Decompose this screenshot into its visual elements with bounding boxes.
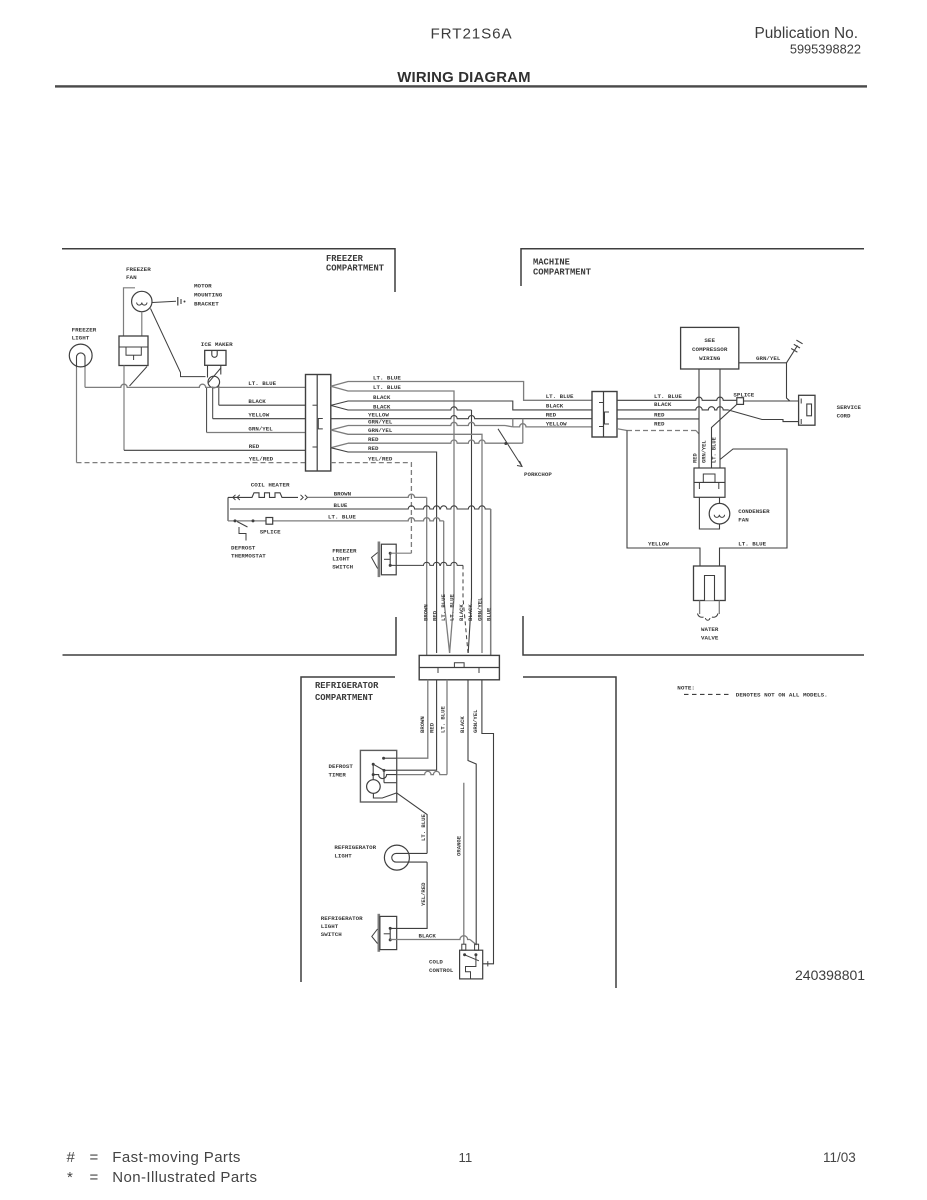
label LT. BLUE condenser loop [738, 540, 766, 547]
footer non-illustrated parts [67, 1169, 257, 1186]
condenser fan label [738, 508, 770, 524]
svg-text:CONTROL: CONTROL [429, 967, 454, 974]
connector J2 machine [592, 392, 617, 438]
wire RED dashed J2 [617, 429, 699, 434]
refrigerator vertical wire label BLACK [459, 716, 466, 733]
wire splice to service cord [744, 400, 799, 402]
svg-text:FAN: FAN [126, 274, 137, 281]
note text [677, 685, 827, 699]
svg-text:RED: RED [249, 443, 260, 450]
wire YEL/RED into switch top contact [390, 552, 411, 554]
wire BLUE row [230, 506, 491, 509]
vertical wire label LT. BLUE [440, 594, 447, 621]
vertical wire label BLACK [458, 604, 465, 621]
svg-text:FAN: FAN [738, 517, 749, 524]
wire RED J2 to compressor [617, 418, 699, 420]
compressor terminal box [694, 468, 725, 497]
wire ice maker YELLOW drop [212, 387, 214, 419]
connector J1 freezer harness [306, 375, 331, 472]
svg-text:VALVE: VALVE [701, 635, 719, 642]
cold control label [429, 959, 454, 974]
splice square freezer [266, 518, 273, 525]
svg-text:RED: RED [654, 411, 665, 418]
wire BLACK drop to porkchop [331, 403, 472, 653]
footer fast-moving parts [67, 1149, 241, 1166]
document number 240398801 [795, 967, 865, 983]
wire switch to BLACK dashed drop [390, 562, 468, 653]
vertical wire label LT. BLUE [449, 594, 456, 621]
svg-text:SPLICE: SPLICE [733, 391, 754, 398]
svg-text:MOUNTING: MOUNTING [194, 292, 223, 299]
svg-text:REFRIGERATOR: REFRIGERATOR [321, 915, 363, 922]
svg-text:YEL/RED: YEL/RED [368, 455, 393, 462]
wire LT.BLUE drop from heater row [444, 521, 450, 653]
svg-text:WATER: WATER [701, 626, 719, 633]
svg-text:WIRING: WIRING [699, 355, 721, 362]
label YELLOW water valve [648, 540, 669, 547]
label YEL/RED vertical [420, 882, 427, 906]
label BLUE heater [334, 502, 348, 509]
defrost timer label [329, 763, 354, 779]
svg-text:YEL/RED: YEL/RED [420, 882, 427, 906]
ice maker leads and pigtail [208, 365, 221, 388]
svg-text:LT. BLUE: LT. BLUE [654, 393, 682, 400]
svg-text:RED: RED [693, 453, 699, 463]
vertical wire label BROWN [423, 604, 430, 621]
wire RED pair riser to machine [331, 419, 523, 448]
svg-text:COMPARTMENT: COMPARTMENT [533, 268, 592, 278]
defrost timer box [360, 750, 396, 802]
svg-text:FRT21S6A: FRT21S6A [431, 26, 513, 43]
wire YELLOW branch to water valve [627, 431, 700, 567]
wire freezer light to LT.BLUE [84, 368, 86, 388]
svg-text:BLACK: BLACK [546, 403, 564, 410]
svg-text:*: * [67, 1169, 73, 1186]
wire YELLOW to machine [331, 411, 592, 418]
footer date [823, 1150, 856, 1165]
label BLACK refrigerator [419, 933, 437, 940]
svg-text:COMPRESSOR: COMPRESSOR [692, 346, 728, 353]
wire LT.BLUE drop to porkchop [331, 384, 454, 653]
svg-text:RED: RED [429, 722, 436, 733]
svg-text:FREEZER: FREEZER [332, 548, 357, 555]
svg-text:LT. BLUE: LT. BLUE [738, 540, 766, 547]
svg-text:LT. BLUE: LT. BLUE [440, 706, 447, 733]
machine compartment bottom border [523, 616, 864, 655]
wire LT.BLUE heater row [228, 518, 444, 521]
svg-text:GRN/YEL: GRN/YEL [477, 597, 484, 621]
page header publication number [754, 25, 861, 57]
svg-text:240398801: 240398801 [795, 967, 865, 983]
label LT. BLUE heater [328, 514, 356, 521]
vertical wire label RED [432, 610, 439, 621]
svg-text:Non-Illustrated Parts: Non-Illustrated Parts [112, 1169, 257, 1186]
cold control [460, 944, 483, 979]
svg-text:GRN/YEL: GRN/YEL [368, 418, 393, 425]
defrost thermostat label [231, 545, 266, 560]
wire GRN/YEL upper [331, 418, 592, 430]
svg-text:FREEZER: FREEZER [326, 254, 364, 264]
vertical wire label BLACK [467, 604, 474, 621]
svg-text:LIGHT: LIGHT [334, 853, 352, 860]
svg-text:BLACK: BLACK [467, 604, 474, 621]
svg-text:LT. BLUE: LT. BLUE [420, 814, 427, 841]
wire RED to defrost timer [397, 680, 437, 770]
svg-text:LT. BLUE: LT. BLUE [328, 514, 356, 521]
svg-text:COIL HEATER: COIL HEATER [251, 482, 290, 489]
wire YEL/RED dashed to freezer light switch [331, 455, 412, 553]
wire BLACK switch to cold control [390, 936, 476, 945]
labels machine rows left [546, 393, 574, 428]
label YEL/RED left [249, 455, 274, 462]
svg-text:SERVICE: SERVICE [837, 404, 862, 411]
svg-text:WIRING DIAGRAM: WIRING DIAGRAM [397, 70, 531, 86]
svg-text:LIGHT: LIGHT [321, 923, 339, 930]
splice label freezer [260, 528, 281, 535]
water valve label [701, 626, 719, 642]
wire YELLOW row left [213, 418, 306, 420]
svg-text:LT. BLUE: LT. BLUE [546, 393, 574, 400]
freezer compartment bottom border [63, 617, 397, 655]
svg-text:RED: RED [654, 420, 665, 427]
defrost thermostat [234, 519, 255, 540]
svg-text:LT. BLUE: LT. BLUE [373, 384, 401, 391]
svg-text:LT. BLUE: LT. BLUE [449, 594, 456, 621]
svg-text:BLACK: BLACK [458, 604, 465, 621]
wire ice maker BLACK drop [218, 386, 220, 406]
refrigerator vertical wire label LT. BLUE [440, 706, 447, 733]
refrigerator light bulb [384, 845, 427, 870]
ground symbol chassis [791, 340, 802, 352]
svg-text:GRN/YEL: GRN/YEL [248, 425, 273, 432]
freezer compartment label [326, 254, 385, 274]
wire GRN/YEL to ground [739, 346, 798, 402]
refrigerator vertical wire label RED [429, 722, 436, 733]
wire timer to refrigerator light [397, 793, 427, 854]
defrost timer motor [367, 775, 397, 798]
svg-text:ICE MAKER: ICE MAKER [201, 341, 233, 348]
label LT. BLUE vertical [420, 814, 427, 841]
wire LT.BLUE row left [85, 384, 306, 387]
svg-text:CORD: CORD [837, 413, 851, 420]
svg-text:BROWN: BROWN [334, 490, 352, 497]
see compressor wiring box [681, 327, 739, 369]
refrigerator light switch label [321, 915, 363, 938]
vertical wire label BLUE [486, 607, 493, 621]
svg-text:#: # [67, 1149, 76, 1166]
svg-text:11/03: 11/03 [823, 1150, 856, 1165]
label GRN/YEL machine [756, 355, 781, 362]
svg-text:LIGHT: LIGHT [332, 556, 350, 563]
wire BROWN to defrost timer [397, 680, 428, 758]
defrost timer contacts [372, 757, 397, 783]
svg-text:RED: RED [546, 412, 557, 419]
svg-text:5995398822: 5995398822 [790, 42, 861, 57]
title underline rule [55, 85, 867, 87]
wire GRN/YEL drop to porkchop [331, 427, 482, 653]
splice label machine [733, 391, 754, 398]
porkchop pointer [498, 429, 552, 478]
freezer fan switch box [119, 336, 148, 366]
label BLACK left [248, 398, 266, 405]
svg-text:11: 11 [459, 1150, 473, 1165]
svg-text:DEFROST: DEFROST [329, 763, 354, 770]
svg-text:BLACK: BLACK [373, 394, 391, 401]
svg-text:SEE: SEE [704, 337, 715, 344]
svg-text:COMPARTMENT: COMPARTMENT [326, 264, 385, 274]
label BROWN heater [334, 490, 352, 497]
freezer fan switch lever [130, 367, 148, 387]
svg-text:GRN/YEL: GRN/YEL [756, 355, 781, 362]
freezer light label [72, 327, 97, 342]
ice maker label [201, 341, 233, 348]
wire ice maker GRN/YEL drop [206, 387, 208, 432]
splice square machine [737, 398, 744, 405]
wire compressor box lead 1 [698, 369, 700, 468]
svg-text:BLUE: BLUE [486, 607, 493, 621]
vertical wire label GRN/YEL [477, 597, 484, 621]
svg-text:DENOTES NOT ON ALL MODELS.: DENOTES NOT ON ALL MODELS. [736, 692, 828, 699]
svg-text:FREEZER: FREEZER [72, 327, 97, 334]
wire freezer fan motor to box [141, 312, 143, 336]
freezer fan motor [132, 291, 152, 311]
svg-text:BLUE: BLUE [334, 502, 348, 509]
connector porkchop [419, 655, 499, 679]
freezer compartment top border [62, 249, 395, 292]
wire BLACK to cold control [468, 680, 476, 944]
svg-text:GRN/YEL: GRN/YEL [472, 709, 479, 733]
ice maker connector [205, 350, 226, 365]
svg-text:MOTOR: MOTOR [194, 283, 212, 290]
wire GRN/YEL row left [207, 432, 306, 434]
condenser fan motor [709, 497, 730, 524]
wire BROWN drop to porkchop [426, 497, 428, 655]
svg-text:COLD: COLD [429, 959, 443, 966]
wire YEL/RED bulb to switch [390, 862, 427, 928]
svg-text:LT. BLUE: LT. BLUE [440, 594, 447, 621]
machine compartment top border [521, 249, 864, 286]
labels machine rows right [654, 393, 682, 427]
svg-text:YELLOW: YELLOW [648, 540, 669, 547]
wire LT.BLUE J2 to splice [617, 397, 737, 400]
label GRN/YEL left [248, 425, 273, 432]
svg-text:REFRIGERATOR: REFRIGERATOR [315, 681, 379, 691]
svg-text:BLACK: BLACK [654, 401, 672, 408]
refrigerator compartment border left [301, 677, 395, 982]
svg-text:YELLOW: YELLOW [248, 412, 269, 419]
wire condenser fan bottom loop [699, 497, 719, 529]
wire LT.BLUE pair to machine [331, 374, 592, 400]
svg-text:CONDENSER: CONDENSER [738, 508, 770, 515]
wire GRN/YEL to cold control [482, 680, 494, 967]
svg-text:REFRIGERATOR: REFRIGERATOR [334, 844, 376, 851]
wire ORANGE drop [463, 783, 465, 945]
wire RED lever [384, 769, 397, 771]
label ORANGE vertical [456, 835, 463, 856]
svg-text:GRN/YEL: GRN/YEL [368, 427, 393, 434]
svg-text:LT. BLUE: LT. BLUE [248, 380, 276, 387]
svg-text:ORANGE: ORANGE [456, 835, 463, 856]
refrigerator light switch [372, 914, 397, 952]
wire GRN/YEL splice to compressor [712, 404, 737, 468]
svg-text:NOTE:: NOTE: [677, 685, 695, 692]
labels compressor drop wires [693, 436, 718, 463]
wire RED drop to porkchop [331, 445, 437, 653]
wire BLUE drop to porkchop [490, 509, 492, 655]
refrigerator compartment label [315, 681, 379, 703]
svg-text:YEL/RED: YEL/RED [249, 455, 274, 462]
svg-text:GRN/YEL: GRN/YEL [702, 440, 708, 463]
svg-text:=: = [90, 1169, 99, 1186]
service cord connector [799, 395, 815, 425]
svg-text:Publication No.: Publication No. [754, 25, 858, 42]
svg-text:Fast-moving Parts: Fast-moving Parts [112, 1149, 241, 1166]
svg-text:BROWN: BROWN [419, 716, 426, 733]
refrigerator light label [334, 844, 376, 860]
svg-text:LIGHT: LIGHT [72, 335, 90, 342]
wire BLACK row left [219, 404, 306, 406]
svg-text:YELLOW: YELLOW [546, 421, 567, 428]
svg-text:BLACK: BLACK [248, 398, 266, 405]
footer page number [459, 1150, 473, 1165]
freezer light switch [372, 542, 397, 578]
wire compressor box lead 2 with branch [720, 369, 788, 566]
svg-text:TIMER: TIMER [329, 772, 347, 779]
coil heater left vertical [227, 497, 229, 521]
wire LT.BLUE to defrost timer [397, 680, 447, 775]
machine compartment label [533, 258, 592, 278]
freezer light bulb [69, 344, 92, 368]
wire YEL/RED row left dashed [77, 462, 306, 464]
svg-text:RED: RED [368, 445, 379, 452]
svg-text:LT. BLUE: LT. BLUE [712, 436, 718, 463]
wire RED row left [124, 449, 306, 451]
svg-text:RED: RED [432, 610, 439, 621]
service cord label [837, 404, 862, 420]
title WIRING DIAGRAM [397, 70, 531, 86]
freezer light switch label [332, 548, 357, 571]
svg-text:DEFROST: DEFROST [231, 545, 256, 552]
label LT. BLUE left [248, 380, 276, 387]
motor mounting bracket label [194, 283, 223, 308]
svg-text:THERMOSTAT: THERMOSTAT [231, 553, 266, 560]
label RED left [249, 443, 260, 450]
label YELLOW left [248, 412, 269, 419]
svg-text:PORKCHOP: PORKCHOP [524, 471, 552, 478]
svg-text:BLACK: BLACK [373, 403, 391, 410]
svg-text:MACHINE: MACHINE [533, 258, 570, 268]
svg-text:SPLICE: SPLICE [260, 528, 281, 535]
coil heater label [251, 482, 290, 489]
refrigerator vertical wire label BROWN [419, 716, 426, 733]
refrigerator vertical wire label GRN/YEL [472, 709, 479, 733]
svg-text:LT. BLUE: LT. BLUE [373, 374, 401, 381]
wire freezer fan to RED row [123, 366, 125, 451]
svg-text:SWITCH: SWITCH [332, 564, 353, 571]
svg-text:BROWN: BROWN [423, 604, 430, 621]
svg-text:SWITCH: SWITCH [321, 931, 342, 938]
svg-text:FREEZER: FREEZER [126, 266, 151, 273]
svg-text:RED: RED [368, 436, 379, 443]
wire BLACK pair to machine [331, 394, 592, 410]
wire freezer fan left lead [124, 288, 136, 336]
svg-text:=: = [90, 1149, 99, 1166]
svg-text:BRACKET: BRACKET [194, 301, 219, 308]
wire freezer fan to ice maker area [151, 309, 206, 377]
coil heater element BROWN row [228, 493, 427, 500]
refrigerator compartment border right [523, 677, 616, 988]
svg-text:BLACK: BLACK [419, 933, 437, 940]
water valve [694, 566, 726, 620]
freezer fan label [126, 266, 151, 281]
page header model number FRT21S6A [431, 26, 513, 43]
motor mounting bracket symbol [153, 297, 186, 306]
svg-text:BLACK: BLACK [459, 716, 466, 733]
svg-text:COMPARTMENT: COMPARTMENT [315, 693, 374, 703]
wire BLACK J2 to service cord [617, 407, 799, 422]
wire freezer light to YEL/RED [76, 368, 78, 463]
